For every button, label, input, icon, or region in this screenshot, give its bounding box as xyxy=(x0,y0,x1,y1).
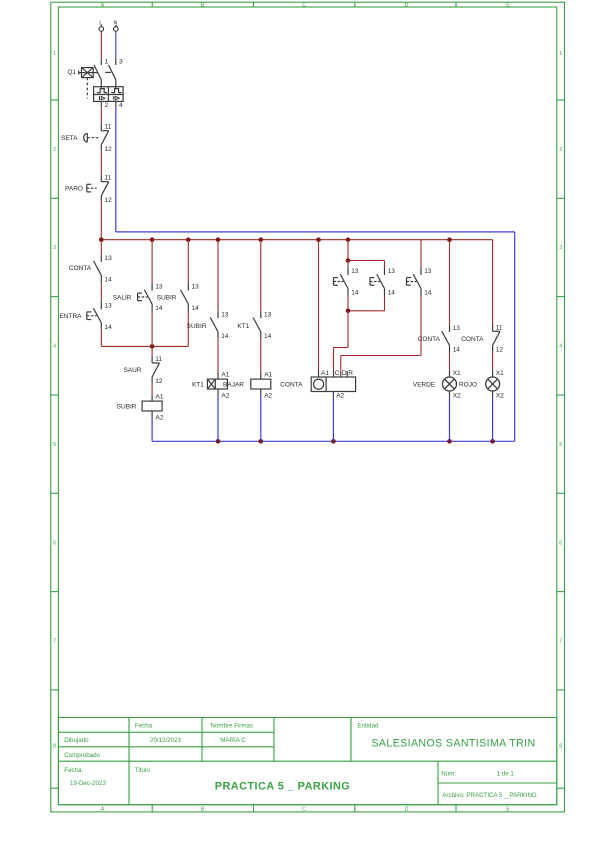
svg-text:14: 14 xyxy=(192,305,200,312)
svg-text:2: 2 xyxy=(53,147,56,153)
svg-text:11: 11 xyxy=(105,175,112,182)
svg-text:C: C xyxy=(335,370,340,377)
wire coil SUBIR to bottom bus xyxy=(151,418,153,442)
wire lamp VERDE to bottom bus xyxy=(449,397,451,442)
svg-text:MARIA C: MARIA C xyxy=(220,737,246,744)
svg-text:1 de 1: 1 de 1 xyxy=(497,770,515,777)
wire bus to SUBIR contact xyxy=(217,240,219,311)
svg-text:13: 13 xyxy=(192,284,200,291)
svg-text:14: 14 xyxy=(264,333,272,340)
svg-text:SUBIR: SUBIR xyxy=(187,323,207,330)
svg-text:7: 7 xyxy=(53,639,56,645)
svg-text:12: 12 xyxy=(105,197,113,204)
svg-text:14: 14 xyxy=(105,324,113,331)
svg-text:Fecha: Fecha xyxy=(135,723,153,730)
svg-text:A2: A2 xyxy=(336,393,344,400)
svg-text:13: 13 xyxy=(105,302,113,309)
svg-text:2: 2 xyxy=(105,102,109,109)
wire bus to counter A1 xyxy=(318,240,320,371)
svg-text:PRACTICA 5 _ PARKING: PRACTICA 5 _ PARKING xyxy=(215,781,350,793)
count pushbutton 2 (NO) xyxy=(370,261,395,297)
wire SALIR down xyxy=(151,311,153,346)
coil SUBIR xyxy=(117,393,164,421)
svg-text:Nombre Firmas: Nombre Firmas xyxy=(210,723,253,730)
svg-text:D: D xyxy=(405,806,409,812)
svg-text:B: B xyxy=(201,2,205,8)
svg-text:X1: X1 xyxy=(453,370,461,377)
svg-text:R: R xyxy=(348,370,353,377)
svg-text:14: 14 xyxy=(453,347,461,354)
svg-text:CONTA: CONTA xyxy=(418,336,441,343)
svg-text:5: 5 xyxy=(53,442,56,448)
svg-text:3: 3 xyxy=(559,245,562,251)
svg-text:SUBIR: SUBIR xyxy=(117,403,137,410)
svg-text:13: 13 xyxy=(264,311,272,318)
svg-text:A2: A2 xyxy=(156,415,164,422)
svg-text:1: 1 xyxy=(53,51,56,57)
coil BAJAR xyxy=(223,371,272,399)
title block xyxy=(58,718,556,805)
svg-text:A1: A1 xyxy=(156,393,164,400)
wire SAUR to coil SUBIR xyxy=(151,383,153,395)
svg-text:12: 12 xyxy=(155,378,163,385)
wire N down xyxy=(115,107,117,232)
svg-text:Comprobado: Comprobado xyxy=(64,752,100,759)
svg-text:CONTA: CONTA xyxy=(69,265,92,272)
terminal L xyxy=(99,20,104,31)
svg-text:C: C xyxy=(302,806,306,812)
svg-text:D: D xyxy=(405,2,409,8)
svg-text:14: 14 xyxy=(424,290,432,297)
wire bus to CONTA contact xyxy=(100,240,102,255)
wire KT1 coil to bottom bus xyxy=(217,396,219,442)
svg-text:A1: A1 xyxy=(264,371,272,378)
svg-text:SAUR: SAUR xyxy=(123,367,141,374)
bottom bus junction nodes xyxy=(216,439,495,444)
wire coil BAJAR to bottom bus xyxy=(260,396,262,442)
svg-text:SETA: SETA xyxy=(61,135,78,142)
wire L to Q1 xyxy=(100,31,102,58)
svg-text:1: 1 xyxy=(105,58,109,65)
terminal N xyxy=(113,20,118,31)
wire N right vertical xyxy=(514,232,516,441)
svg-text:4: 4 xyxy=(53,344,56,350)
count pushbutton 1 (NO) xyxy=(334,261,359,297)
contact CONTA (NC) for ROJO xyxy=(461,324,503,353)
svg-text:12: 12 xyxy=(496,347,504,354)
svg-text:4: 4 xyxy=(559,344,562,350)
svg-text:Titulo: Titulo xyxy=(135,767,150,774)
wire ENTRA down xyxy=(100,330,102,347)
circuit breaker Q1 xyxy=(67,58,123,109)
wire node to SAUR xyxy=(151,346,153,356)
wire SETA to PARO xyxy=(100,151,102,175)
lamp ROJO xyxy=(459,370,504,400)
contact KT1 (NO) xyxy=(237,311,271,340)
wire bus to SALIR xyxy=(151,240,153,283)
svg-text:8: 8 xyxy=(53,744,56,750)
svg-text:13: 13 xyxy=(155,284,163,291)
wire lamp ROJO to bottom bus xyxy=(492,397,494,442)
wire Q1 to SETA xyxy=(100,107,102,124)
svg-text:A: A xyxy=(101,2,105,8)
svg-text:A1: A1 xyxy=(321,370,329,377)
button pair bottom wire xyxy=(346,296,385,314)
wire bus to SUBIR aux xyxy=(187,240,189,283)
wire reset button to D input xyxy=(341,296,421,373)
svg-text:A1: A1 xyxy=(221,371,229,378)
svg-text:14: 14 xyxy=(221,333,229,340)
wire contact to lamp ROJO xyxy=(492,351,494,370)
svg-text:14: 14 xyxy=(388,290,396,297)
wire counter A2 to bottom bus xyxy=(332,398,334,441)
svg-text:5: 5 xyxy=(559,442,562,448)
svg-text:13: 13 xyxy=(105,255,113,262)
svg-text:Núm:: Núm: xyxy=(441,770,456,777)
svg-text:PARO: PARO xyxy=(65,186,83,193)
wire bus to button pair xyxy=(346,240,351,263)
svg-text:CONTA: CONTA xyxy=(461,336,484,343)
wire bus to CONTA NO contact xyxy=(449,240,451,325)
contact CONTA (NO) for VERDE xyxy=(418,324,461,353)
svg-text:Q1: Q1 xyxy=(67,69,76,76)
svg-text:X2: X2 xyxy=(453,393,461,400)
svg-text:SALIR: SALIR xyxy=(113,294,132,301)
svg-text:A2: A2 xyxy=(264,393,272,400)
contact CONTA (NO) xyxy=(69,254,112,283)
svg-text:11: 11 xyxy=(496,324,503,331)
wire N across top xyxy=(116,231,515,233)
button pair top wire xyxy=(348,260,385,262)
svg-text:3: 3 xyxy=(53,245,56,251)
wire KT1 contact to coil BAJAR xyxy=(260,339,262,373)
wire PARO to bus xyxy=(100,202,102,240)
rung1 horizontal wire xyxy=(101,344,188,349)
wire SUBIR contact to KT1 coil xyxy=(217,339,219,373)
svg-text:E: E xyxy=(506,806,510,812)
svg-text:KT1: KT1 xyxy=(237,323,249,330)
wire CONTA to ENTRA xyxy=(100,282,102,302)
svg-text:20/12/2023: 20/12/2023 xyxy=(150,737,182,744)
wire N to Q1 xyxy=(115,31,117,58)
wire contact to lamp VERDE xyxy=(449,352,451,370)
svg-text:6: 6 xyxy=(559,540,562,546)
counter coil CONTA xyxy=(280,370,355,399)
svg-text:13: 13 xyxy=(388,268,396,275)
svg-text:A: A xyxy=(101,806,105,812)
svg-text:X1: X1 xyxy=(496,370,504,377)
svg-text:SUBIR: SUBIR xyxy=(157,294,177,301)
contact SUBIR aux (NO) xyxy=(157,283,199,312)
svg-text:6: 6 xyxy=(53,540,56,546)
lamp VERDE xyxy=(413,370,461,400)
svg-text:E: E xyxy=(506,2,510,8)
svg-text:14: 14 xyxy=(351,290,359,297)
svg-text:13: 13 xyxy=(424,268,432,275)
svg-text:B: B xyxy=(201,806,205,812)
svg-text:D: D xyxy=(342,370,347,377)
wire buttons to C input xyxy=(334,311,349,371)
svg-text:CONTA: CONTA xyxy=(280,382,303,389)
svg-text:7: 7 xyxy=(559,639,562,645)
bus junction nodes xyxy=(99,237,452,242)
pushbutton ENTRA (NO) xyxy=(59,302,112,331)
svg-text:ROJO: ROJO xyxy=(459,382,477,389)
pushbutton PARO xyxy=(65,175,112,204)
svg-text:3: 3 xyxy=(119,58,123,65)
pushbutton SALIR (NO) xyxy=(113,283,163,312)
svg-text:KT1: KT1 xyxy=(192,382,204,389)
svg-text:11: 11 xyxy=(155,356,162,363)
svg-text:12: 12 xyxy=(105,146,113,153)
svg-text:2: 2 xyxy=(559,147,562,153)
svg-text:Fecha:: Fecha: xyxy=(64,767,83,774)
svg-text:Dibujado: Dibujado xyxy=(64,737,89,744)
svg-text:13: 13 xyxy=(351,268,359,275)
svg-text:1: 1 xyxy=(559,51,562,57)
contact SAUR (NC) xyxy=(123,356,162,385)
wire bus to CONTA NC contact xyxy=(492,240,494,325)
svg-text:A2: A2 xyxy=(221,393,229,400)
svg-text:BAJAR: BAJAR xyxy=(223,382,244,389)
phase bus xyxy=(101,239,492,241)
svg-text:4: 4 xyxy=(119,102,123,109)
svg-text:Archivo: PRACTICA 5 _ PARKING: Archivo: PRACTICA 5 _ PARKING xyxy=(442,792,537,799)
svg-text:14: 14 xyxy=(155,305,163,312)
svg-text:13: 13 xyxy=(453,325,461,332)
svg-text:14: 14 xyxy=(105,276,113,283)
timer coil KT1 xyxy=(192,371,230,399)
svg-text:11: 11 xyxy=(105,124,112,131)
svg-text:13: 13 xyxy=(221,311,229,318)
neutral bottom bus xyxy=(152,440,515,442)
svg-text:C: C xyxy=(302,2,306,8)
wire bus to KT1 contact xyxy=(260,240,262,311)
svg-text:ENTRA: ENTRA xyxy=(59,313,82,320)
wire SUBIR aux down xyxy=(187,311,189,346)
svg-text:VERDE: VERDE xyxy=(413,382,436,389)
emergency stop SETA xyxy=(61,124,112,153)
reset pushbutton (NO) xyxy=(407,240,432,297)
svg-text:19-Dec-2023: 19-Dec-2023 xyxy=(70,780,106,787)
svg-text:Entidad: Entidad xyxy=(357,723,379,730)
contact SUBIR (NO) xyxy=(187,311,229,340)
svg-text:8: 8 xyxy=(559,744,562,750)
svg-text:X2: X2 xyxy=(496,393,504,400)
svg-text:SALESIANOS SANTISIMA TRIN: SALESIANOS SANTISIMA TRIN xyxy=(371,738,535,750)
